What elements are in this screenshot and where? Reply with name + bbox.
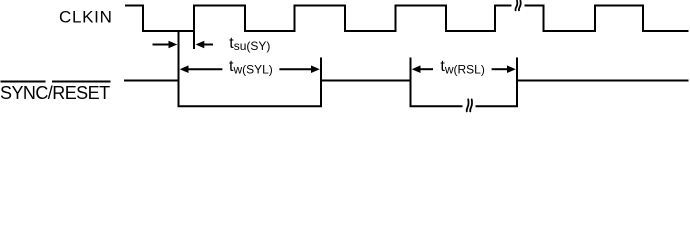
- arrowhead tw(RSL) right-pointing: [507, 65, 516, 73]
- node tick tw(RSL) left: [410, 58, 412, 81]
- wire tw(RSL) right arrow tail: [492, 68, 508, 70]
- node tick tw(SYL) right: [320, 58, 322, 81]
- wire SYNC/RESET waveform: [124, 81, 689, 107]
- svg-text:tw(SYL): tw(SYL): [229, 58, 273, 76]
- node tick tsu right (CLKIN rise extension): [193, 31, 195, 49]
- arrowhead tw(RSL) left-pointing: [412, 65, 421, 73]
- arrowhead tw(SYL) left-pointing: [180, 65, 189, 73]
- arrowhead tsu left-pointing: [196, 41, 205, 49]
- node tick tw(RSL) right: [516, 58, 518, 81]
- wire tw(SYL) right arrow tail: [279, 68, 311, 70]
- break mark CLKIN: [515, 1, 520, 11]
- svg-text:SYNC/RESET: SYNC/RESET: [0, 83, 110, 103]
- arrowhead tw(SYL) right-pointing: [311, 65, 320, 73]
- overline SYNC: [1, 81, 46, 83]
- wire CLKIN waveform: [125, 6, 689, 32]
- svg-text:tsu(SY): tsu(SY): [229, 35, 270, 53]
- node tick tsu left (SYNC fall extension): [178, 31, 180, 81]
- break mark SYNC/RESET: [467, 99, 472, 111]
- svg-text:tw(RSL): tw(RSL): [440, 58, 484, 76]
- wire tsu arrow right tail: [204, 44, 213, 46]
- wire tsu arrow left tail: [153, 44, 170, 46]
- svg-text:CLKIN: CLKIN: [59, 8, 113, 27]
- arrowhead tsu right-pointing: [169, 41, 178, 49]
- wire tw(SYL) left arrow tail: [188, 68, 222, 70]
- overline RESET: [52, 81, 111, 83]
- wire tw(RSL) left arrow tail: [420, 68, 433, 70]
